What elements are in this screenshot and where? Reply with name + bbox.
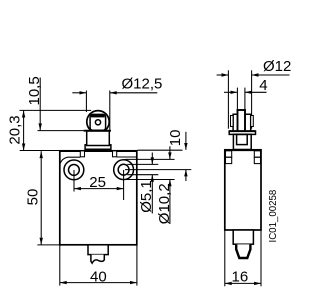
svg-text:20,3: 20,3 <box>6 115 23 144</box>
svg-text:16: 16 <box>232 268 249 285</box>
svg-text:IC01_00258: IC01_00258 <box>268 190 279 243</box>
svg-text:10,5: 10,5 <box>26 76 43 105</box>
svg-text:Ø12,5: Ø12,5 <box>122 76 163 93</box>
svg-text:40: 40 <box>90 268 107 285</box>
svg-text:Ø12: Ø12 <box>263 58 291 75</box>
svg-text:50: 50 <box>25 189 42 206</box>
svg-text:25: 25 <box>89 174 106 191</box>
svg-text:Ø10,2: Ø10,2 <box>156 183 173 224</box>
svg-text:Ø5,1: Ø5,1 <box>138 180 155 213</box>
svg-text:4: 4 <box>259 77 267 94</box>
svg-text:10: 10 <box>167 130 184 147</box>
